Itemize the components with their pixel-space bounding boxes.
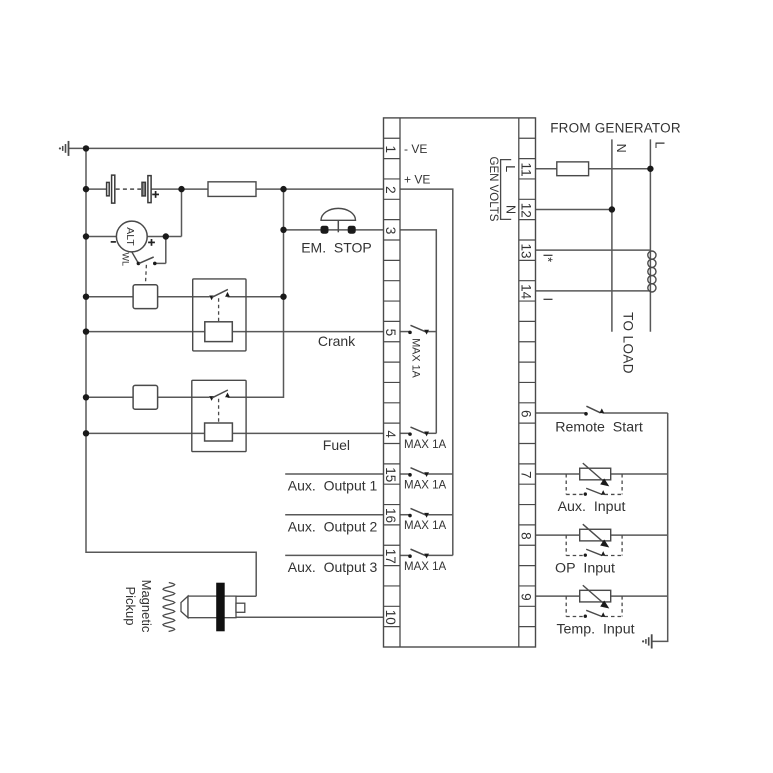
svg-text:1: 1: [383, 145, 398, 153]
svg-text:MAX 1A: MAX 1A: [410, 338, 422, 378]
svg-text:13: 13: [519, 243, 534, 258]
svg-text:11: 11: [519, 163, 534, 177]
svg-text:N: N: [614, 144, 628, 153]
svg-text:2: 2: [383, 186, 398, 194]
svg-text:Pickup: Pickup: [123, 586, 138, 625]
svg-text:Aux. Input: Aux. Input: [558, 499, 626, 515]
svg-text:6: 6: [519, 410, 534, 418]
svg-text:Aux. Output 1: Aux. Output 1: [288, 478, 378, 494]
svg-text:MAX 1A: MAX 1A: [404, 561, 447, 573]
svg-text:Remote Start: Remote Start: [555, 420, 643, 436]
svg-text:15: 15: [383, 467, 398, 482]
svg-text:Aux. Output 3: Aux. Output 3: [288, 559, 378, 575]
svg-text:5: 5: [383, 329, 398, 337]
svg-text:OP Input: OP Input: [555, 560, 615, 576]
svg-text:16: 16: [383, 508, 398, 523]
svg-text:8: 8: [519, 532, 534, 540]
svg-text:Magnetic: Magnetic: [139, 580, 154, 633]
svg-text:- VE: - VE: [404, 142, 427, 156]
svg-text:L: L: [503, 165, 517, 172]
svg-text:12: 12: [519, 203, 534, 218]
svg-text:L: L: [653, 142, 667, 149]
svg-text:WL: WL: [121, 252, 131, 266]
svg-text:9: 9: [519, 593, 534, 601]
svg-text:TO LOAD: TO LOAD: [621, 312, 636, 374]
svg-text:10: 10: [383, 610, 398, 625]
svg-text:MAX 1A: MAX 1A: [404, 439, 447, 451]
svg-text:MAX 1A: MAX 1A: [404, 520, 447, 532]
svg-text:FROM GENERATOR: FROM GENERATOR: [550, 121, 681, 136]
svg-text:Aux. Output 2: Aux. Output 2: [288, 518, 378, 534]
svg-text:3: 3: [383, 227, 398, 235]
svg-text:I: I: [541, 297, 556, 301]
svg-text:MAX 1A: MAX 1A: [404, 480, 447, 492]
svg-text:N: N: [504, 205, 518, 214]
svg-text:GEN VOLTS: GEN VOLTS: [487, 157, 499, 222]
svg-text:Fuel: Fuel: [323, 437, 350, 453]
svg-text:ALT: ALT: [124, 227, 136, 246]
svg-text:4: 4: [383, 430, 398, 438]
svg-text:14: 14: [519, 284, 534, 300]
svg-text:EM. STOP: EM. STOP: [301, 239, 372, 255]
svg-text:+ VE: + VE: [404, 173, 430, 187]
svg-text:17: 17: [383, 549, 398, 564]
svg-text:Crank: Crank: [318, 333, 356, 349]
svg-text:Temp. Input: Temp. Input: [556, 621, 634, 637]
svg-text:I*: I*: [541, 253, 556, 262]
svg-text:7: 7: [519, 471, 534, 479]
